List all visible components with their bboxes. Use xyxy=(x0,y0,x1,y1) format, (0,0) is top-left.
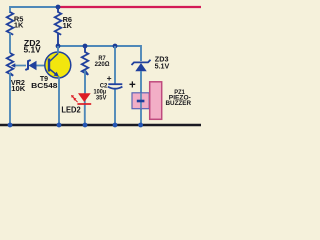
svg-text:35V: 35V xyxy=(96,94,107,101)
node ground VR2 xyxy=(8,123,13,128)
wire ZD3 anode to buzzer xyxy=(140,71,142,125)
wire collector to junction xyxy=(57,46,59,54)
node ground C2 xyxy=(113,123,118,128)
resistor R6 xyxy=(55,7,73,46)
transistor T9 BC548 xyxy=(31,52,71,90)
svg-text:5.1V: 5.1V xyxy=(155,61,171,70)
wire VR2 bottom to ground rail xyxy=(9,73,11,125)
svg-text:BC548: BC548 xyxy=(31,81,57,90)
node ground buzzer xyxy=(138,123,143,128)
svg-text:+: + xyxy=(129,79,136,91)
wire R7 to LED2 xyxy=(84,71,86,94)
wire emitter to ground rail xyxy=(58,77,60,126)
resistor R7 xyxy=(82,46,110,75)
svg-text:220Ω: 220Ω xyxy=(95,61,110,68)
node collector junction xyxy=(56,44,61,49)
potentiometer VR2 xyxy=(7,53,26,93)
node C2 junction xyxy=(113,44,118,49)
node R7 junction xyxy=(83,44,88,49)
piezo buzzer PZ1 xyxy=(129,79,192,119)
zener ZD2 xyxy=(24,39,49,70)
node top junction at R6 xyxy=(56,5,61,10)
wire top rail red (positive supply) xyxy=(58,6,201,8)
svg-text:1K: 1K xyxy=(14,21,24,30)
LED LED2 xyxy=(61,93,91,114)
resistor R5 xyxy=(7,12,24,35)
svg-text:1K: 1K xyxy=(63,21,73,30)
svg-text:5.1V: 5.1V xyxy=(24,46,42,55)
svg-text:BUZZER: BUZZER xyxy=(166,100,192,107)
node ground LED2 xyxy=(83,123,88,128)
wire ground rail xyxy=(0,124,201,127)
node ground emitter xyxy=(57,123,62,128)
wire LED2 cathode to ground rail xyxy=(84,93,86,125)
svg-text:LED2: LED2 xyxy=(61,105,81,114)
zener ZD3 xyxy=(132,55,171,72)
capacitor C2 xyxy=(94,46,123,125)
wire R5 bottom to VR2 top xyxy=(9,33,11,53)
wire middle rail collector node to ZD3 corner xyxy=(58,46,141,61)
svg-text:+: + xyxy=(107,73,112,83)
svg-text:10K: 10K xyxy=(11,84,26,93)
wire top rail blue from R5 to R6 node xyxy=(10,7,58,13)
